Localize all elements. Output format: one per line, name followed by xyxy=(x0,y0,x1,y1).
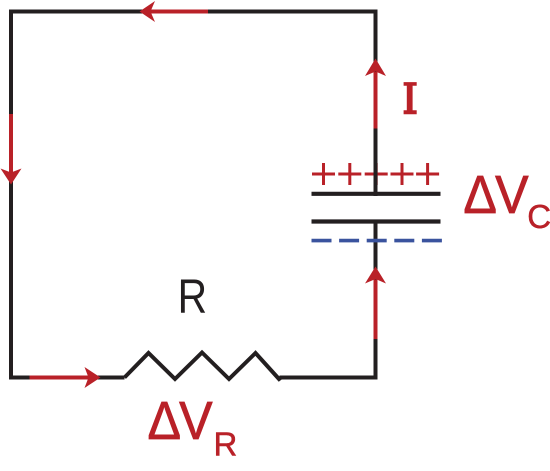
capacitor C bottom plate xyxy=(312,219,441,223)
resistor R xyxy=(125,353,282,380)
wire bottom-right + right vertical up to capacitor xyxy=(280,224,376,378)
svg-text:R: R xyxy=(214,426,238,463)
svg-text:C: C xyxy=(527,198,550,235)
capacitor bottom-plate negative charges (blue dashed line) xyxy=(312,239,443,243)
current arrow on bottom wire (pointing right) xyxy=(30,367,101,388)
current label I xyxy=(404,82,417,114)
current arrow on left wire (pointing down) xyxy=(1,114,22,185)
current arrow on right wire below capacitor (pointing up) xyxy=(365,267,386,340)
svg-text:ΔV: ΔV xyxy=(463,165,528,225)
current arrow on top wire (pointing left) xyxy=(140,1,209,22)
svg-text:R: R xyxy=(178,271,207,324)
current arrow I on right wire above capacitor (pointing up) xyxy=(365,59,386,129)
svg-text:ΔV: ΔV xyxy=(148,391,213,451)
capacitor top-plate positive charges ++++ xyxy=(312,163,439,185)
capacitor C top plate xyxy=(312,192,441,196)
wire top + left + bottom-left segment xyxy=(11,12,376,378)
